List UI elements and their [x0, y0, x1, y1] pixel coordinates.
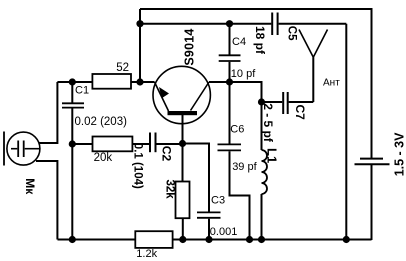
- svg-text:52: 52: [116, 62, 129, 74]
- svg-text:20k: 20k: [94, 152, 113, 164]
- svg-text:1.5 - 3V: 1.5 - 3V: [392, 132, 406, 176]
- svg-text:18 pf: 18 pf: [253, 26, 267, 55]
- svg-text:2 - 5 pf: 2 - 5 pf: [261, 103, 275, 143]
- svg-text:Мк: Мк: [23, 178, 37, 195]
- svg-text:C5: C5: [286, 26, 298, 41]
- svg-text:39 pf: 39 pf: [232, 161, 257, 173]
- svg-text:C4: C4: [232, 36, 246, 48]
- svg-text:0.02 (203): 0.02 (203): [75, 116, 128, 128]
- svg-text:C7: C7: [293, 105, 307, 121]
- svg-text:C2: C2: [160, 146, 174, 162]
- svg-text:32k: 32k: [164, 180, 176, 200]
- svg-text:C1: C1: [75, 85, 89, 97]
- svg-text:1.2k: 1.2k: [136, 248, 157, 260]
- svg-text:C6: C6: [230, 124, 244, 136]
- svg-text:S9014: S9014: [183, 28, 197, 65]
- svg-text:L1: L1: [264, 148, 279, 163]
- svg-text:0.001: 0.001: [210, 226, 238, 238]
- svg-text:10 pf: 10 pf: [231, 68, 256, 80]
- svg-text:0.1 (104): 0.1 (104): [132, 143, 144, 189]
- svg-text:Ант: Ант: [323, 78, 340, 89]
- svg-text:C3: C3: [211, 195, 225, 207]
